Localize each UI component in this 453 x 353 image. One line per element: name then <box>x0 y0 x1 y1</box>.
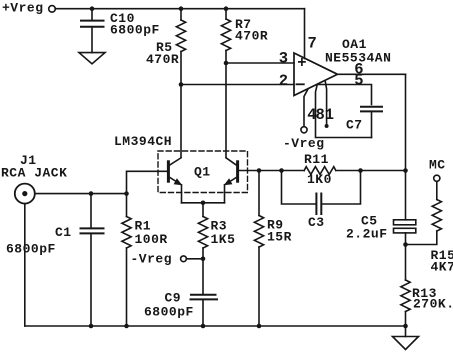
capacitor C5 <box>394 171 416 245</box>
wire base tap up/right to Q1a base <box>127 171 168 193</box>
wire feedback line (base Q1b to R11 net) <box>239 170 305 172</box>
label - input (drawn dash) <box>297 83 304 85</box>
node dot C9 bottom <box>201 324 206 329</box>
wire pin 3 <box>226 62 294 64</box>
capacitor C3 <box>282 171 361 215</box>
wire J1 signal to base tap <box>36 193 127 195</box>
wire pin 1 stub <box>325 82 326 125</box>
svg-text:RCA JACK: RCA JACK <box>1 166 67 181</box>
svg-text:15R: 15R <box>267 230 292 245</box>
wire pin7 drop <box>304 9 306 59</box>
svg-text:LM394CH: LM394CH <box>114 134 172 149</box>
resistor R15 <box>406 181 442 244</box>
svg-text:C3: C3 <box>308 215 325 230</box>
wire pin 5 stub <box>318 85 372 105</box>
svg-text:1: 1 <box>325 106 335 124</box>
resistor R3 <box>198 203 207 294</box>
node dot ground junction <box>403 324 408 329</box>
svg-text:C9: C9 <box>165 291 182 306</box>
svg-text:2: 2 <box>279 72 289 90</box>
wire -Vreg to R3/C9 <box>187 258 204 260</box>
connector J1 RCA jack <box>15 184 35 326</box>
wire top rail <box>55 8 304 10</box>
transistor Q1 dashed outline <box>158 151 248 193</box>
wire R7 column to Q1 right collector <box>225 63 227 158</box>
svg-text:470R: 470R <box>146 52 179 67</box>
wire pin 2 <box>181 84 294 86</box>
wire bottom bus <box>25 325 406 327</box>
resistor R11 <box>304 167 336 175</box>
resistor R5 <box>176 9 185 85</box>
capacitor C10 <box>81 9 104 53</box>
node -Vreg terminal (left) <box>181 256 187 262</box>
node -Vreg terminal (op-amp pin4) <box>301 127 307 133</box>
resistor R13 <box>401 245 410 327</box>
svg-text:MC: MC <box>429 158 446 173</box>
svg-text:6800pF: 6800pF <box>144 305 194 320</box>
node dot C1 top <box>89 191 94 196</box>
op-amp OA1 <box>294 53 338 96</box>
svg-text:7: 7 <box>308 35 318 53</box>
transistor Q1b (right half) <box>224 158 238 203</box>
ground (bottom right) <box>393 337 419 350</box>
wire R11 right to output column <box>336 170 406 172</box>
capacitor C9 <box>191 295 218 326</box>
svg-text:470R: 470R <box>235 29 268 44</box>
wire R5 column to Q1 left collector <box>180 85 182 158</box>
resistor R7 <box>221 9 230 63</box>
node +Vreg terminal <box>49 6 56 13</box>
svg-text:270K.: 270K. <box>413 297 453 312</box>
node dot R9 bottom <box>257 324 262 329</box>
wire pin 4 <box>304 89 308 127</box>
transistor Q1a (left half) <box>168 158 182 203</box>
node dot C3 right <box>358 168 363 173</box>
resistor R9 <box>254 171 263 327</box>
node dot R7/pin3 <box>224 61 229 66</box>
svg-text:2.2uF: 2.2uF <box>346 227 388 242</box>
node dot R5 bottom / pin2 wire <box>179 82 184 87</box>
svg-text:R11: R11 <box>304 152 329 167</box>
capacitor C7 <box>361 107 382 138</box>
svg-text:5: 5 <box>354 72 364 90</box>
svg-text:Q1: Q1 <box>194 165 211 180</box>
svg-text:6800pF: 6800pF <box>6 242 56 257</box>
node MC terminal <box>434 175 440 181</box>
node dot C1 bottom <box>89 324 94 329</box>
svg-text:100R: 100R <box>135 232 168 247</box>
node dot pin1 end <box>325 124 329 128</box>
node dot emitters <box>201 201 206 206</box>
svg-text:6800pF: 6800pF <box>110 23 160 38</box>
wire output drop to feedback node <box>405 74 407 170</box>
svg-text:-Vreg: -Vreg <box>283 136 325 151</box>
svg-text:C1: C1 <box>55 225 72 240</box>
svg-text:C7: C7 <box>346 118 363 133</box>
svg-text:+: + <box>297 54 307 72</box>
wire ground stub <box>405 326 407 337</box>
svg-text:1K0: 1K0 <box>307 172 332 187</box>
ground (under C10) <box>79 53 105 64</box>
node dot -Vreg junction <box>201 257 206 262</box>
node dot C5 bottom <box>403 242 408 247</box>
node dot R9 top <box>257 168 262 173</box>
svg-text:-Vreg: -Vreg <box>131 252 173 267</box>
wire output pin 6 <box>338 73 406 75</box>
node dot feedback/output <box>403 168 408 173</box>
svg-text:+Vreg: +Vreg <box>2 1 44 16</box>
node dot R5 top <box>179 6 184 11</box>
svg-text:1K5: 1K5 <box>211 232 236 247</box>
node dot R1 bottom <box>124 324 129 329</box>
node dot C3 left <box>279 168 284 173</box>
wire C7 bottom to pin 8 <box>316 86 372 138</box>
resistor R1 <box>122 194 131 326</box>
svg-text:3: 3 <box>279 49 289 67</box>
svg-text:4K7: 4K7 <box>431 260 453 275</box>
wire emitter bus <box>182 202 225 204</box>
node dot signal/R1/base <box>124 191 129 196</box>
node dot C10/top rail <box>90 6 95 11</box>
node dot R7 top <box>224 6 229 11</box>
capacitor C1 <box>81 194 104 326</box>
